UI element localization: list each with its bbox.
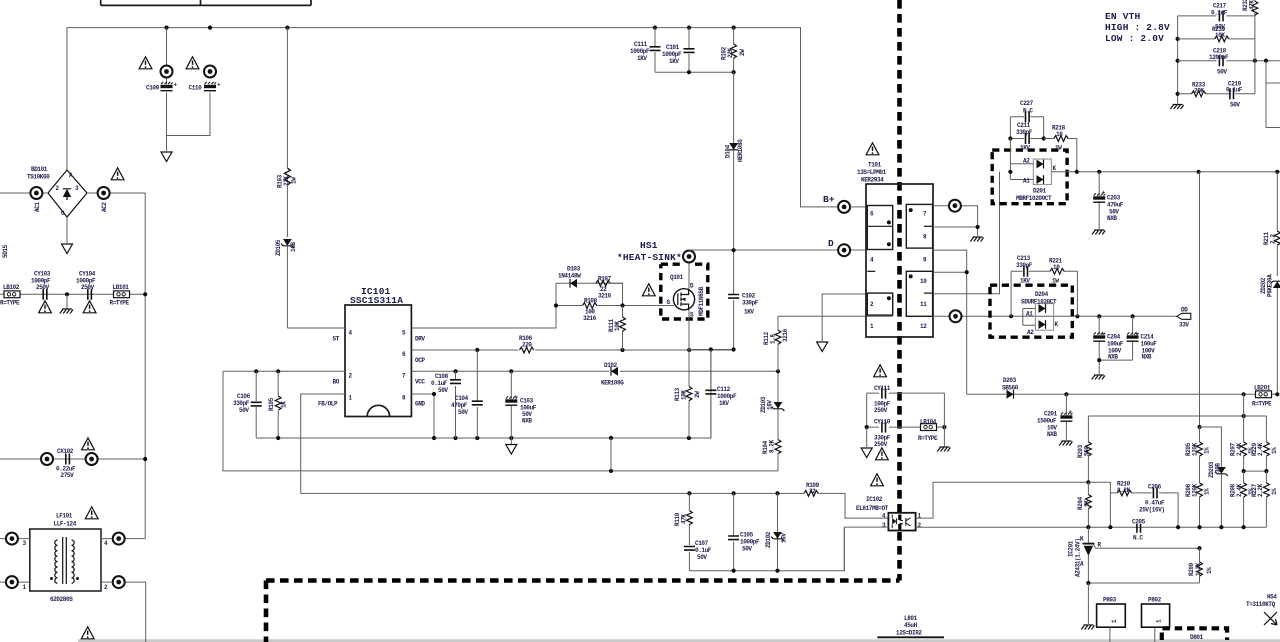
capacitor C101 xyxy=(662,28,695,73)
resistor R209 xyxy=(1188,548,1213,583)
svg-text:0.1uF: 0.1uF xyxy=(431,380,448,387)
svg-text:LOW : 2.0V: LOW : 2.0V xyxy=(1105,33,1164,44)
zener ZD202 xyxy=(1260,274,1280,394)
wire aux pin2 to ground xyxy=(817,294,867,352)
diode D103 xyxy=(556,266,623,288)
svg-text:AZ431(1.24V): AZ431(1.24V) xyxy=(1075,539,1082,577)
svg-text:100uF: 100uF xyxy=(1141,341,1158,348)
svg-text:ZD102: ZD102 xyxy=(765,531,772,548)
wire gnd-to-loop link xyxy=(610,438,612,471)
warning triangle near LF101 xyxy=(85,507,98,519)
resistor R102 xyxy=(721,28,747,73)
svg-text:3216: 3216 xyxy=(782,328,789,342)
capacitor C206 xyxy=(1139,484,1178,528)
wire EN block left bus xyxy=(1176,16,1180,104)
svg-text:L801: L801 xyxy=(904,615,918,622)
svg-text:D204: D204 xyxy=(1035,291,1049,298)
svg-text:3: 3 xyxy=(75,185,79,192)
connector D xyxy=(828,238,850,256)
svg-text:T=3110KTQ: T=3110KTQ xyxy=(1246,601,1276,608)
ground IC201 xyxy=(1081,625,1094,630)
capacitor C201 polarized xyxy=(1037,394,1073,440)
capacitor CY103 xyxy=(31,271,51,300)
svg-text:120K: 120K xyxy=(1192,442,1199,456)
svg-text:1KV: 1KV xyxy=(669,58,679,65)
shunt regulator IC201 xyxy=(1068,527,1202,583)
diode D201 xyxy=(1008,139,1280,203)
svg-text:C201: C201 xyxy=(1044,411,1058,418)
svg-text:275V: 275V xyxy=(61,472,75,479)
wire right-edge stub box xyxy=(1266,61,1280,128)
wire pin4 ST row xyxy=(287,327,345,329)
svg-text:K: K xyxy=(1053,165,1057,172)
capacitor C227 xyxy=(1010,100,1043,139)
resistor R229 xyxy=(1251,416,1278,471)
wire IC102 pin3 xyxy=(844,527,888,571)
svg-text:T101: T101 xyxy=(868,162,882,169)
diode D204 dashed box xyxy=(990,285,1072,337)
resistor R239 xyxy=(1178,26,1255,42)
wire R210 branch xyxy=(1088,482,1117,527)
svg-text:45uH: 45uH xyxy=(904,622,918,629)
transformer LF101 xyxy=(23,513,109,604)
svg-text:620280S: 620280S xyxy=(50,596,73,603)
inductor LB104 xyxy=(918,419,938,443)
warning triangle above CX102 xyxy=(82,438,95,450)
svg-text:A2: A2 xyxy=(1023,158,1030,165)
resistor R113 xyxy=(674,350,701,439)
svg-text:C203: C203 xyxy=(1107,195,1121,202)
resistor R233 and capacitor C219 xyxy=(1178,16,1255,109)
svg-text:DD: DD xyxy=(1181,307,1188,314)
svg-text:NXB: NXB xyxy=(1107,215,1117,222)
wire LB201 drop xyxy=(1243,394,1245,416)
wire 12V sense column xyxy=(1197,172,1201,429)
capacitor C109 xyxy=(146,28,210,151)
svg-text:100uF: 100uF xyxy=(1107,341,1124,348)
svg-text:2: 2 xyxy=(918,522,922,529)
svg-text:330pF: 330pF xyxy=(1016,129,1033,136)
svg-text:C108: C108 xyxy=(435,373,449,380)
svg-text:R107: R107 xyxy=(598,276,612,283)
transformer T101 xyxy=(857,162,933,338)
svg-text:ZD105: ZD105 xyxy=(275,239,282,256)
svg-text:1000pF: 1000pF xyxy=(662,51,682,58)
svg-text:SDURF1030CT: SDURF1030CT xyxy=(1021,299,1057,306)
svg-text:HIGH : 2.8V: HIGH : 2.8V xyxy=(1105,22,1170,33)
svg-text:LB201: LB201 xyxy=(1254,385,1271,392)
capacitor CY110 xyxy=(865,393,947,448)
svg-text:1KV: 1KV xyxy=(744,309,754,316)
wire Q101 source row xyxy=(689,310,736,352)
svg-text:A1: A1 xyxy=(1023,178,1030,185)
resistor R112 xyxy=(763,316,789,371)
opto-coupler IC102 xyxy=(856,496,922,531)
svg-text:EL817MB=OT: EL817MB=OT xyxy=(856,505,889,512)
svg-text:B+: B+ xyxy=(823,194,835,205)
connector HS1 terminal xyxy=(683,251,695,290)
svg-text:50V: 50V xyxy=(458,409,468,416)
svg-text:10K: 10K xyxy=(614,321,621,331)
svg-text:7: 7 xyxy=(923,211,927,218)
svg-text:250V: 250V xyxy=(36,284,50,291)
svg-text:C110: C110 xyxy=(189,85,203,92)
resistor R110 xyxy=(674,493,692,545)
zener ZD203 xyxy=(1200,427,1228,527)
svg-text:39B: 39B xyxy=(1215,463,1222,473)
capacitor C217 xyxy=(1178,3,1255,31)
warning triangle near BD101 xyxy=(111,168,124,180)
connector DD 33V flag xyxy=(1177,307,1191,329)
ground LB104 right xyxy=(937,393,950,451)
warning triangle below CY103 xyxy=(39,301,52,313)
resistor R106 xyxy=(518,335,535,354)
svg-text:C106: C106 xyxy=(237,393,251,400)
svg-text:EN VTH: EN VTH xyxy=(1105,11,1141,22)
svg-text:1%: 1% xyxy=(1271,447,1278,454)
capacitor C112 xyxy=(705,350,737,439)
svg-text:20K: 20K xyxy=(1194,88,1204,95)
svg-text:6: 6 xyxy=(870,211,874,218)
resistor R103 xyxy=(277,28,298,237)
svg-text:1%: 1% xyxy=(1204,488,1211,495)
svg-text:47K: 47K xyxy=(681,514,688,524)
wire R207/R229 link xyxy=(1242,469,1269,473)
svg-text:CY104: CY104 xyxy=(79,271,96,278)
svg-text:NXB: NXB xyxy=(522,418,532,425)
svg-text:IC201: IC201 xyxy=(1068,540,1075,557)
capacitor C205 xyxy=(1086,518,1245,542)
svg-text:1%: 1% xyxy=(1206,567,1213,574)
svg-text:A2: A2 xyxy=(1027,329,1034,336)
warning triangle bottom edge xyxy=(81,627,94,639)
svg-text:0.1uF: 0.1uF xyxy=(1211,10,1228,17)
svg-text:16V: 16V xyxy=(767,400,774,410)
svg-text:NXB: NXB xyxy=(1108,354,1118,361)
svg-text:HS4: HS4 xyxy=(1267,594,1277,601)
svg-text:470uF: 470uF xyxy=(1107,202,1124,209)
wire primary top bus xyxy=(67,28,837,207)
zener ZD105 xyxy=(275,239,297,328)
svg-text:2: 2 xyxy=(104,584,108,591)
svg-text:2.2K: 2.2K xyxy=(1257,483,1264,497)
connector LF101 pin3 xyxy=(0,533,30,545)
svg-text:9: 9 xyxy=(923,257,927,264)
svg-text:AC2: AC2 xyxy=(101,202,108,212)
capacitor C106 xyxy=(233,371,262,438)
transistor Q101 xyxy=(667,274,706,319)
svg-text:DRV: DRV xyxy=(415,336,425,343)
svg-text:1KV: 1KV xyxy=(1020,278,1030,285)
capacitor C211 xyxy=(1008,122,1045,152)
svg-text:R108: R108 xyxy=(584,298,598,305)
svg-text:3: 3 xyxy=(23,540,27,547)
capacitor C111 xyxy=(630,28,661,73)
capacitor C102 xyxy=(728,293,759,350)
svg-text:3216: 3216 xyxy=(598,293,612,300)
resistor R206 xyxy=(1185,483,1211,527)
svg-text:2: 2 xyxy=(870,301,874,308)
inductor LB101 xyxy=(110,284,130,307)
svg-text:10: 10 xyxy=(1053,264,1060,271)
svg-text:C112: C112 xyxy=(717,386,731,393)
svg-text:1K: 1K xyxy=(1084,500,1091,507)
svg-text:IC102: IC102 xyxy=(866,496,883,503)
zener ZD103 xyxy=(760,369,784,439)
svg-text:1000pF: 1000pF xyxy=(717,393,737,400)
svg-text:LB101: LB101 xyxy=(113,284,130,291)
svg-text:1500uF: 1500uF xyxy=(1037,418,1057,425)
svg-text:C227: C227 xyxy=(1020,100,1034,107)
svg-text:2.4K: 2.4K xyxy=(1236,483,1243,497)
wire feedback bottom rail xyxy=(689,527,844,573)
svg-text:330pF: 330pF xyxy=(233,400,250,407)
node top bus junctions xyxy=(164,26,735,30)
svg-text:22K: 22K xyxy=(727,48,734,58)
svg-text:R: R xyxy=(1098,542,1102,549)
svg-text:50V: 50V xyxy=(1217,69,1227,76)
svg-text:1000pF: 1000pF xyxy=(740,539,760,546)
inductor L801 label xyxy=(877,615,944,637)
svg-text:*HEAT-SINK*: *HEAT-SINK* xyxy=(617,252,682,263)
barrier dashed vertical main xyxy=(897,0,902,581)
capacitor C104 xyxy=(451,350,483,438)
svg-text:8.2K: 8.2K xyxy=(769,439,776,453)
capacitor CX102 xyxy=(41,448,98,479)
resistor R207 xyxy=(1230,416,1255,471)
ground EN block xyxy=(1170,105,1183,110)
wire drain row D xyxy=(689,248,866,252)
wire T101 pin9/pin10 xyxy=(933,250,969,394)
svg-text:LLF-124: LLF-124 xyxy=(54,521,77,528)
svg-text:R=TYPE: R=TYPE xyxy=(0,300,20,307)
svg-text:1K: 1K xyxy=(281,401,288,408)
svg-text:470pF: 470pF xyxy=(451,402,468,409)
capacitor C213 xyxy=(1011,255,1050,316)
resistor R211 xyxy=(1263,172,1280,276)
diode D203 xyxy=(967,377,1280,399)
svg-text:C217: C217 xyxy=(1213,3,1227,10)
svg-text:2.4K: 2.4K xyxy=(1257,442,1264,456)
wire T101 pin12 row xyxy=(933,310,1177,322)
connector LF101 pin2 xyxy=(101,576,146,642)
svg-text:22K: 22K xyxy=(283,176,290,186)
svg-text:LF101: LF101 xyxy=(56,513,73,520)
svg-text:50V: 50V xyxy=(1230,102,1240,109)
svg-text:50V: 50V xyxy=(438,387,448,394)
warning triangle below CY104 xyxy=(83,301,96,313)
resistor R221 xyxy=(1049,258,1077,317)
svg-text:4: 4 xyxy=(104,540,108,547)
svg-text:5D15: 5D15 xyxy=(2,244,9,258)
warning triangle near C110 xyxy=(186,57,199,69)
svg-text:13S=LPM01: 13S=LPM01 xyxy=(857,169,887,176)
svg-text:C109: C109 xyxy=(146,85,160,92)
svg-text:50V: 50V xyxy=(697,554,707,561)
svg-text:330pF: 330pF xyxy=(742,300,759,307)
svg-text:47K: 47K xyxy=(1249,0,1256,10)
svg-text:16B: 16B xyxy=(290,242,297,252)
svg-text:+: + xyxy=(174,82,178,89)
svg-text:0.1uF: 0.1uF xyxy=(695,547,712,554)
capacitor CY104 xyxy=(76,271,96,300)
diode D201 dashed box xyxy=(992,150,1067,204)
svg-text:C104: C104 xyxy=(455,395,469,402)
connector B+ xyxy=(823,194,866,213)
svg-text:0.1uF: 0.1uF xyxy=(1226,87,1243,94)
svg-text:1%: 1% xyxy=(1271,488,1278,495)
warning triangle above CY111 xyxy=(874,365,887,377)
svg-text:+: + xyxy=(1069,409,1073,416)
svg-text:0.47uF: 0.47uF xyxy=(1145,500,1165,507)
svg-text:D801: D801 xyxy=(1190,634,1204,641)
ground below C203 xyxy=(1092,230,1105,235)
svg-text:1W: 1W xyxy=(291,177,298,184)
svg-text:250V: 250V xyxy=(874,441,888,448)
ground below C201 xyxy=(1059,441,1072,446)
svg-text:1W: 1W xyxy=(1052,278,1059,285)
svg-text:SSC1S311A: SSC1S311A xyxy=(350,295,403,306)
table fragment top-left xyxy=(101,0,311,5)
svg-text:ST: ST xyxy=(333,336,340,343)
ground CY110 left xyxy=(861,427,872,457)
wire BO return loop xyxy=(223,371,778,473)
svg-text:10: 10 xyxy=(1056,131,1063,138)
connector LF101 pin4 xyxy=(101,533,145,545)
wire R109 row xyxy=(301,491,889,518)
bridge rectifier BD101 xyxy=(27,166,87,217)
svg-text:2.4K: 2.4K xyxy=(1236,442,1243,456)
svg-text:2W: 2W xyxy=(739,49,746,56)
connector P803 xyxy=(1097,597,1126,642)
resistor R227 xyxy=(1251,471,1278,527)
svg-text:Q101: Q101 xyxy=(670,274,684,281)
wire pin1 FB/OLP xyxy=(301,394,345,493)
heat sink HS4 xyxy=(1246,594,1277,626)
svg-text:1: 1 xyxy=(23,584,27,591)
svg-text:FB/OLP: FB/OLP xyxy=(318,401,338,408)
svg-text:A1: A1 xyxy=(1026,311,1033,318)
svg-text:10: 10 xyxy=(920,278,927,285)
wire pin5 DRV row xyxy=(411,283,556,328)
inductor LB102 xyxy=(0,284,20,307)
svg-text:C105: C105 xyxy=(740,532,754,539)
warning triangle above IC102 xyxy=(871,474,884,486)
svg-text:GND: GND xyxy=(415,401,425,408)
svg-text:C107: C107 xyxy=(695,540,709,547)
svg-text:C211: C211 xyxy=(1017,122,1031,129)
svg-text:12S=DI02: 12S=DI02 xyxy=(896,630,922,637)
svg-text:LB102: LB102 xyxy=(3,284,20,291)
wire pin6 OCP row xyxy=(411,348,734,352)
warning triangle below CY110 xyxy=(876,448,889,460)
connector AC2 xyxy=(87,187,145,212)
svg-text:8: 8 xyxy=(923,234,927,241)
wire IC201 bottom row xyxy=(1086,581,1199,624)
svg-text:D: D xyxy=(828,238,834,249)
svg-text:16V: 16V xyxy=(781,533,788,543)
svg-text:P803: P803 xyxy=(1103,597,1117,604)
svg-text:LB104: LB104 xyxy=(920,419,937,426)
resistor R203 xyxy=(1077,416,1091,482)
svg-text:50V: 50V xyxy=(239,407,249,414)
wire CX102 row xyxy=(0,457,147,461)
zener ZD102 xyxy=(765,493,788,570)
ground at CY junction xyxy=(60,294,73,313)
svg-text:330pF: 330pF xyxy=(1016,262,1033,269)
svg-text:N.C: N.C xyxy=(1133,535,1143,542)
svg-text:C102: C102 xyxy=(742,293,756,300)
svg-text:8.2K: 8.2K xyxy=(1117,487,1131,494)
resistor R107 xyxy=(596,276,612,300)
diode D204 xyxy=(1021,291,1059,336)
wire feedback box top xyxy=(1088,414,1266,418)
svg-text:10K: 10K xyxy=(1215,32,1225,39)
resistor R208 xyxy=(1230,471,1255,527)
resistor R105 xyxy=(268,371,288,438)
svg-text:D104: D104 xyxy=(725,144,732,158)
wire aux pin1 row xyxy=(778,315,893,317)
svg-text:+: + xyxy=(1102,190,1106,197)
resistor R104 xyxy=(762,439,781,471)
svg-text:HER108G: HER108G xyxy=(737,139,744,162)
capacitor C214 polarized xyxy=(1127,316,1158,360)
svg-text:1N4148W: 1N4148W xyxy=(558,273,581,280)
svg-text:AC1: AC1 xyxy=(34,202,41,212)
bottom title-block edge xyxy=(78,639,1280,642)
svg-text:1%: 1% xyxy=(1204,447,1211,454)
wire pin2 BO row xyxy=(223,369,345,373)
svg-text:KER108G: KER108G xyxy=(601,380,624,387)
svg-text:2W: 2W xyxy=(694,391,701,398)
svg-text:TS10K60: TS10K60 xyxy=(27,174,50,181)
connector AC1 xyxy=(0,187,48,212)
svg-text:1000pF: 1000pF xyxy=(630,48,650,55)
wire T101 pin7 row xyxy=(933,200,978,227)
resistor R210 xyxy=(1117,481,1152,496)
svg-text:25V(16V): 25V(16V) xyxy=(1139,507,1165,514)
svg-text:1.8: 1.8 xyxy=(770,334,777,344)
capacitor CY111 xyxy=(867,385,945,414)
svg-text:NXB: NXB xyxy=(1142,354,1152,361)
capacitor C110 xyxy=(189,66,222,92)
svg-text:560: 560 xyxy=(1084,446,1091,456)
barrier dashed vertical left xyxy=(264,581,269,642)
capacitor C108 xyxy=(431,371,461,438)
svg-text:NXB: NXB xyxy=(1047,431,1057,438)
barrier dashed horizontal xyxy=(266,578,900,583)
warning triangle near C109 xyxy=(139,57,152,69)
svg-text:D102: D102 xyxy=(604,362,618,369)
svg-text:1.2K: 1.2K xyxy=(1195,562,1202,576)
svg-text:10K: 10K xyxy=(681,390,688,400)
svg-text:C206: C206 xyxy=(1148,484,1162,491)
svg-text:120K: 120K xyxy=(1192,483,1199,497)
diode D801 dashed box xyxy=(1162,628,1227,641)
svg-text:C205: C205 xyxy=(1132,519,1146,526)
diode D102 xyxy=(601,362,624,387)
inductor LB201 xyxy=(1252,385,1272,408)
capacitor C107 xyxy=(684,540,712,571)
svg-text:N.C: N.C xyxy=(1023,108,1033,115)
svg-text:1KV: 1KV xyxy=(719,400,729,407)
svg-text:MDF11N65B: MDF11N65B xyxy=(698,286,705,316)
svg-text:R105: R105 xyxy=(268,397,275,411)
svg-text:C111: C111 xyxy=(634,41,648,48)
wire T101 pin8 to ground xyxy=(933,225,984,242)
svg-text:1: 1 xyxy=(870,323,874,330)
svg-text:P6KE30A: P6KE30A xyxy=(1267,274,1274,297)
